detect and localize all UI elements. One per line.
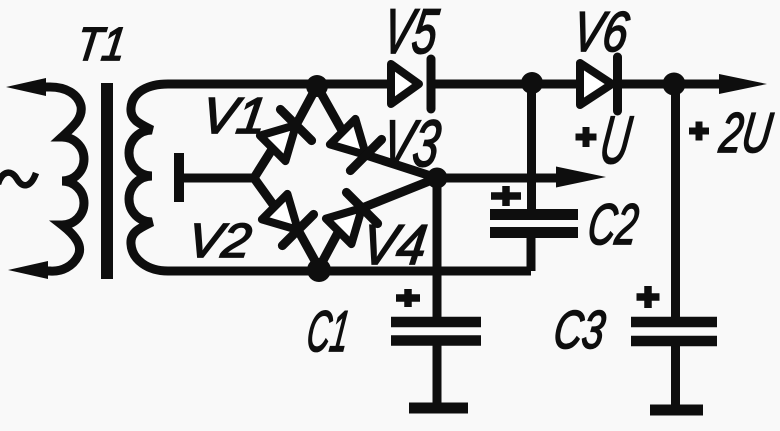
C1 plus sign: [396, 289, 420, 307]
svg-text:V2: V2: [184, 214, 254, 268]
diode V1: [260, 109, 312, 161]
C1 bottom terminal bar: [409, 403, 468, 414]
wire: V5 node down to C2: [527, 83, 536, 214]
capacitor C2 top plate: [490, 209, 578, 220]
wire: bridge arm V4 (bottom to right): [319, 178, 437, 268]
wire: bridge left corner to common terminal: [182, 174, 254, 183]
svg-text:V6: V6: [569, 0, 633, 63]
wire: top rail secondary to V5: [190, 80, 392, 89]
C3 plus sign: [637, 286, 660, 308]
AC tilde symbol: [0, 173, 36, 186]
wire: bottom rail secondary to C2: [190, 267, 531, 276]
wire: bridge arm V1 (left to top): [254, 86, 317, 178]
capacitor C1 top plate: [391, 317, 481, 328]
node: bridge bottom junction: [307, 258, 331, 282]
svg-text:2U: 2U: [716, 101, 777, 164]
wire: bridge arm V2 (left to bottom): [254, 178, 319, 268]
wire: V5 to V6: [428, 80, 580, 89]
diode V6: [580, 57, 618, 111]
capacitor C3 bottom plate: [631, 336, 717, 347]
diode V5: [391, 59, 431, 109]
svg-text:C3: C3: [550, 300, 608, 360]
primary top arrow: [6, 78, 46, 96]
label C2: [584, 193, 642, 257]
capacitor C1 bottom plate: [391, 335, 481, 346]
label C1: [303, 300, 353, 364]
capacitor C2 bottom plate: [490, 227, 578, 238]
wire: C3 bottom lead: [671, 343, 680, 406]
svg-text:T1: T1: [74, 18, 130, 70]
label +2U: [689, 122, 709, 141]
primary bottom arrow: [8, 261, 48, 279]
label V3: [378, 107, 445, 181]
capacitor C3 top plate: [631, 317, 717, 328]
label V6: [569, 0, 633, 63]
svg-text:V1: V1: [198, 87, 270, 144]
common terminal bar: [174, 153, 184, 202]
label V4: [358, 214, 430, 277]
wire: bridge output to +U arrow: [437, 174, 562, 183]
C2 plus sign: [491, 186, 521, 206]
label V1: [198, 87, 270, 144]
wire: C2 bottom to bottom rail: [527, 234, 536, 271]
wire: C1 bottom lead: [433, 342, 442, 404]
label V2: [184, 214, 254, 268]
wire: bridge arm V3 (top to right): [317, 86, 437, 178]
svg-text:V5: V5: [379, 0, 443, 67]
diode V3: [330, 119, 382, 171]
svg-text:C2: C2: [584, 193, 642, 257]
transformer T1 core: [101, 83, 113, 279]
diode V2: [262, 194, 314, 246]
C3 bottom terminal bar: [650, 405, 703, 416]
label C3: [550, 300, 608, 360]
wire: V6 to +2U arrow: [618, 80, 740, 89]
label V5: [379, 0, 443, 67]
label T1: [74, 18, 130, 70]
wire: bridge output down to C1: [433, 178, 442, 322]
transformer T1 secondary winding: [129, 84, 196, 271]
node: V6 cathode / C3 junction: [663, 73, 686, 96]
label +U: [576, 127, 597, 147]
svg-text:V3: V3: [378, 107, 445, 181]
wire: V6 node down to C3: [671, 84, 680, 322]
transformer T1 primary winding: [30, 87, 84, 271]
node: V5 cathode / C2 junction: [521, 72, 543, 94]
diode V4: [326, 192, 378, 244]
node: bridge top junction: [306, 75, 328, 97]
svg-text:V4: V4: [358, 214, 430, 277]
+U output arrow: [556, 167, 606, 188]
+2U output arrow: [719, 74, 767, 94]
node: bridge right output junction: [427, 168, 448, 189]
